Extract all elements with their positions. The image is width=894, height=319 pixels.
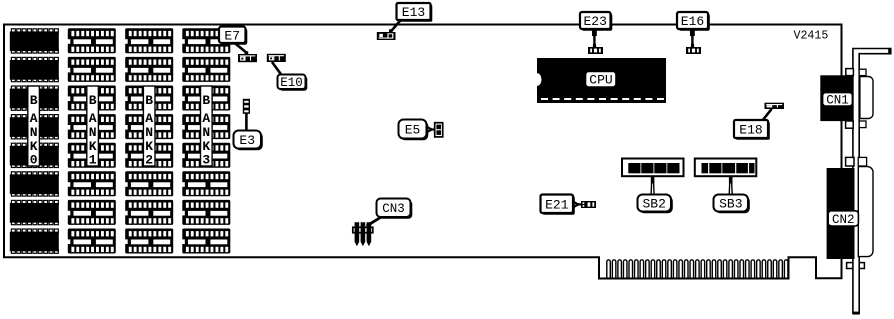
PCB board outline bbox=[4, 25, 842, 279]
DRAM chip BANK0 row 7 bbox=[10, 200, 59, 224]
jumper E16 (3-pin) bbox=[691, 44, 694, 47]
leader line E23 bbox=[593, 29, 595, 45]
DRAM chip BANK1 row 6 bbox=[67, 171, 116, 196]
jumper E23 (3-pin) bbox=[593, 44, 596, 47]
svg-text:A: A bbox=[202, 111, 210, 126]
bracket foot tab bbox=[847, 263, 865, 269]
svg-text:E3: E3 bbox=[239, 133, 255, 148]
jumper E10 (3-pin) bbox=[267, 54, 286, 62]
callout label E16 bbox=[677, 12, 710, 31]
CN2 label bbox=[828, 211, 858, 227]
connector CN2 body bbox=[827, 168, 855, 259]
svg-text:E18: E18 bbox=[739, 123, 762, 138]
leader line E18 bbox=[763, 109, 772, 121]
jumper E18 (3-pin) bbox=[765, 103, 785, 109]
switch block SB2 bbox=[622, 159, 684, 177]
callout label SB3 bbox=[714, 195, 750, 214]
svg-text:E7: E7 bbox=[224, 28, 240, 43]
DRAM chip BANK3 row 4 bbox=[182, 114, 231, 139]
leader line E3 bbox=[245, 114, 248, 132]
svg-text:CN1: CN1 bbox=[826, 93, 849, 107]
DRAM chip BANK2 row 6 bbox=[125, 171, 174, 196]
DRAM chip BANK1 row 2 bbox=[67, 57, 116, 82]
callout label E23 bbox=[580, 12, 612, 31]
callout label E13 bbox=[397, 3, 433, 22]
DRAM chip BANK2 row 2 bbox=[125, 57, 174, 82]
leader line E13 bbox=[391, 21, 401, 32]
leader line E10 bbox=[272, 62, 282, 75]
DRAM chip BANK2 row 3 bbox=[125, 86, 174, 111]
DRAM chip BANK0 row 2 bbox=[10, 57, 59, 81]
svg-text:B: B bbox=[89, 93, 97, 108]
callout label E21 bbox=[541, 195, 575, 215]
svg-text:SB2: SB2 bbox=[642, 197, 665, 212]
svg-text:N: N bbox=[202, 125, 210, 140]
CN1 mounting tab top-left bbox=[846, 69, 854, 76]
DRAM chip BANK3 row 1 bbox=[182, 28, 231, 53]
DRAM chip BANK3 row 7 bbox=[182, 200, 231, 225]
leader line E21 arrow bbox=[573, 202, 578, 208]
BANK3 label strip bbox=[201, 86, 213, 168]
DRAM chip BANK2 row 8 bbox=[125, 229, 174, 254]
svg-text:V2415: V2415 bbox=[794, 30, 829, 43]
CN1 D-sub housing on bracket bbox=[860, 77, 873, 119]
jumper E5 (2-pin vertical) bbox=[435, 123, 443, 137]
svg-text:E10: E10 bbox=[280, 76, 303, 90]
DRAM chip BANK1 row 1 bbox=[67, 28, 116, 53]
DRAM chip BANK1 row 7 bbox=[67, 200, 116, 225]
DRAM chip BANK0 row 6 bbox=[10, 172, 59, 196]
bracket flange end cap bbox=[888, 48, 891, 54]
svg-text:N: N bbox=[89, 125, 97, 140]
DRAM chip BANK3 row 2 bbox=[182, 57, 231, 82]
callout label E7 bbox=[219, 27, 247, 45]
callout label E10 bbox=[278, 75, 308, 91]
svg-text:E23: E23 bbox=[583, 14, 606, 29]
svg-text:E5: E5 bbox=[405, 123, 421, 138]
DRAM chip BANK2 row 1 bbox=[125, 28, 174, 53]
callout label SB2 bbox=[638, 195, 673, 214]
svg-text:N: N bbox=[145, 125, 153, 140]
jumper E3 (3-pin vertical) bbox=[243, 99, 250, 114]
CN2 D-sub housing on bracket bbox=[858, 167, 873, 257]
jumper E7 (3-pin) bbox=[245, 51, 249, 54]
jumper E21 (3-pin) bbox=[581, 201, 596, 208]
svg-text:2: 2 bbox=[145, 153, 153, 168]
svg-text:0: 0 bbox=[30, 153, 38, 168]
DRAM chip BANK3 row 6 bbox=[182, 171, 231, 196]
jumper E13 (3-pin) bbox=[377, 29, 396, 40]
DRAM chip BANK1 row 5 bbox=[67, 143, 116, 168]
svg-text:1: 1 bbox=[89, 153, 97, 168]
callout label E3 bbox=[234, 131, 263, 151]
DRAM chip BANK3 row 3 bbox=[182, 86, 231, 111]
BANK0 label strip bbox=[28, 86, 40, 168]
svg-text:3: 3 bbox=[202, 153, 210, 168]
DRAM chip BANK0 row 1 bbox=[10, 29, 59, 53]
DRAM chip BANK1 row 8 bbox=[67, 229, 116, 254]
BANK1 label strip bbox=[87, 86, 99, 168]
DRAM chip BANK1 row 4 bbox=[67, 114, 116, 139]
svg-text:B: B bbox=[30, 93, 38, 108]
svg-text:B: B bbox=[202, 93, 210, 108]
BANK2 label strip bbox=[143, 86, 155, 168]
CN1 mounting tab bottom-left bbox=[846, 121, 854, 128]
leader line CN3 bbox=[367, 217, 382, 226]
edge connector gold fingers bbox=[607, 260, 788, 278]
CN1 mounting tab top-right bbox=[859, 69, 866, 75]
CN2 mounting tab top-right bbox=[858, 157, 866, 166]
svg-text:A: A bbox=[145, 111, 153, 126]
leader line E5 arrow bbox=[426, 126, 432, 132]
CPU chip U-CPU bbox=[533, 58, 666, 103]
bracket bottom cap bbox=[853, 312, 859, 315]
svg-text:SB3: SB3 bbox=[719, 197, 742, 212]
svg-text:E13: E13 bbox=[402, 5, 425, 20]
svg-text:A: A bbox=[89, 111, 97, 126]
switch block SB3 bbox=[695, 159, 757, 177]
svg-text:N: N bbox=[30, 125, 38, 140]
CN1 mounting tab bottom-right bbox=[859, 121, 866, 128]
svg-text:E21: E21 bbox=[545, 197, 569, 212]
svg-text:CN2: CN2 bbox=[832, 213, 855, 227]
DRAM chip BANK3 row 5 bbox=[182, 143, 231, 168]
callout label E5 bbox=[399, 120, 429, 141]
CN1 label bbox=[823, 93, 853, 108]
callout label E18 bbox=[734, 120, 770, 140]
DRAM chip BANK2 row 4 bbox=[125, 114, 174, 139]
connector CN1 body bbox=[820, 75, 853, 121]
leader line E16 bbox=[691, 29, 693, 45]
svg-text:CPU: CPU bbox=[589, 73, 612, 88]
DRAM chip BANK0 row 8 bbox=[10, 229, 59, 253]
CN2 mounting tab top-left bbox=[846, 157, 854, 166]
DRAM chip BANK1 row 3 bbox=[67, 86, 116, 111]
DRAM chip BANK2 row 5 bbox=[125, 143, 174, 168]
DRAM chip BANK3 row 8 bbox=[182, 229, 231, 254]
callout label CN3 bbox=[377, 199, 413, 219]
DRAM chip BANK0 row 3 bbox=[10, 86, 59, 110]
DRAM chip BANK0 row 5 bbox=[10, 143, 59, 167]
svg-text:B: B bbox=[145, 93, 153, 108]
leader line SB3 bbox=[729, 176, 733, 195]
mounting bracket bbox=[853, 49, 891, 314]
DRAM chip BANK0 row 4 bbox=[10, 115, 59, 139]
leader line E7 bbox=[234, 43, 246, 53]
connector CN3 3-pin header bbox=[353, 222, 373, 246]
svg-text:A: A bbox=[30, 111, 38, 126]
svg-text:E16: E16 bbox=[681, 14, 704, 29]
leader line SB2 bbox=[651, 176, 655, 195]
DRAM chip BANK2 row 7 bbox=[125, 200, 174, 225]
svg-text:CN3: CN3 bbox=[382, 202, 405, 216]
